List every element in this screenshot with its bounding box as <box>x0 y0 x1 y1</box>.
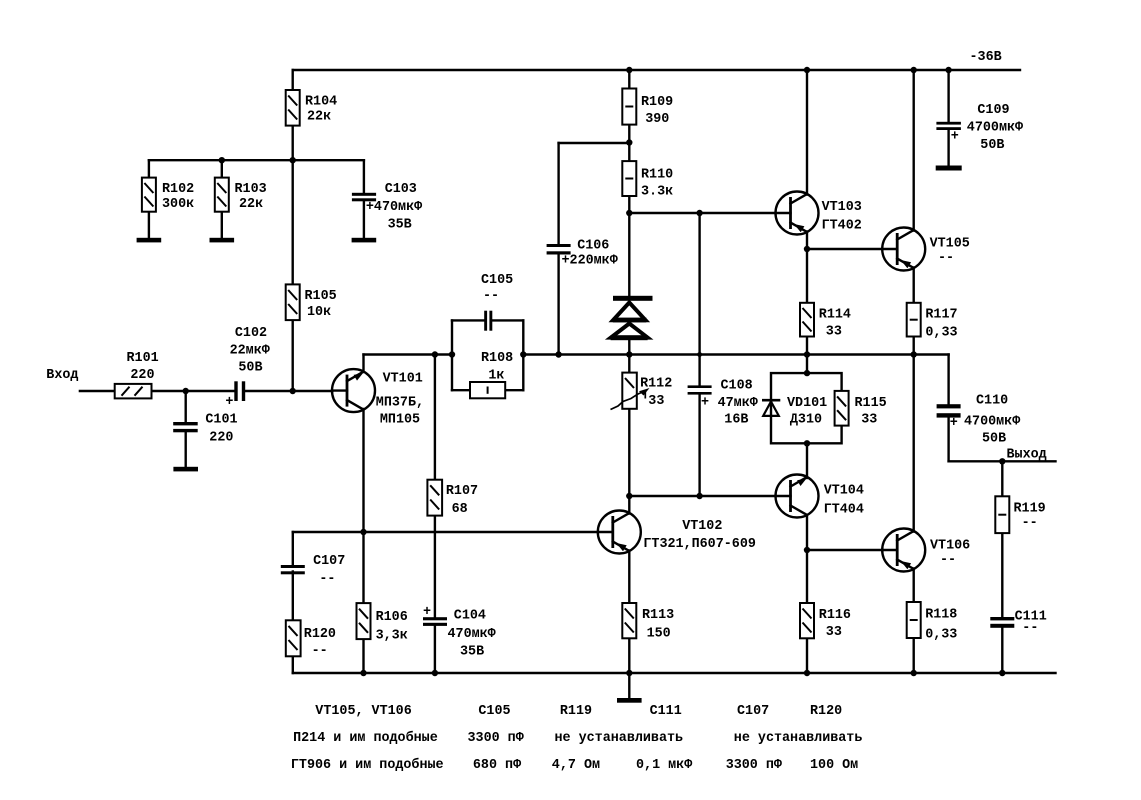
wire R104 column top <box>292 70 294 90</box>
node mid wire R117 <box>911 351 917 357</box>
svg-text:C110: C110 <box>976 394 1008 409</box>
ground under R102 <box>137 238 162 243</box>
svg-text:ГТ321,П607-609: ГТ321,П607-609 <box>643 537 756 552</box>
svg-text:C108: C108 <box>721 379 753 394</box>
ground under R103 <box>210 238 235 243</box>
node VT102 collector <box>626 493 632 499</box>
wire R106 top lead <box>362 532 364 603</box>
wire C110 column from mid wire <box>947 355 949 405</box>
node mid wire C108 crossing <box>697 352 702 357</box>
node output R119 <box>999 458 1005 464</box>
svg-text:П214 и им подобные: П214 и им подобные <box>293 730 438 746</box>
svg-text:C101: C101 <box>205 413 237 428</box>
svg-text:35В: 35В <box>388 218 412 233</box>
wire C110 bottom to output wire <box>947 418 949 461</box>
svg-text:C103: C103 <box>385 182 417 197</box>
node C108 top tap <box>696 210 702 216</box>
svg-text:R113: R113 <box>642 608 674 623</box>
svg-text:1к: 1к <box>488 369 504 384</box>
node block top <box>804 370 810 376</box>
wire block bottom to VT104 emitter <box>806 443 808 478</box>
wire C102 to VT101 base <box>245 390 332 392</box>
capacitor C108 <box>688 385 712 394</box>
ground under C101 <box>173 467 198 472</box>
wire R108 branch left <box>452 389 470 391</box>
node rail-VT103 <box>804 67 810 73</box>
wire R120 bottom to ground rail <box>292 656 294 673</box>
resistor R102 <box>142 178 156 212</box>
svg-text:R109: R109 <box>641 95 673 110</box>
node rail-C109 <box>945 67 951 73</box>
svg-text:C107: C107 <box>313 554 345 569</box>
capacitor C103 <box>352 193 376 202</box>
wire R119 top lead <box>1001 461 1003 496</box>
wire feedback row C107 to VT102 base <box>293 531 598 533</box>
wire R116 top lead <box>806 550 808 603</box>
wire VT104 collector node to VT106 base <box>807 549 883 551</box>
svg-text:C109: C109 <box>977 103 1009 118</box>
svg-text:R112: R112 <box>640 377 672 392</box>
svg-text:50В: 50В <box>980 138 1004 153</box>
svg-text:22мкФ: 22мкФ <box>230 344 270 359</box>
wire VT103 collector to rail <box>806 70 808 195</box>
wire C106 tap to R109/R110 junction <box>559 142 630 144</box>
resistor R114 <box>800 303 814 337</box>
wire R113 bottom to ground rail <box>628 638 630 673</box>
wire R104 bottom to bias node row <box>292 126 294 161</box>
svg-text:150: 150 <box>647 627 671 642</box>
resistor R106 <box>357 603 371 639</box>
wire C109 bottom to ground <box>947 130 949 166</box>
transistor VT102 (PNP) <box>598 511 641 554</box>
svg-text:ГТ906 и им подобные: ГТ906 и им подобные <box>291 757 444 773</box>
capacitor C107 <box>281 565 305 574</box>
ground under C103 <box>352 238 377 243</box>
resistor R113 <box>622 603 636 638</box>
wire R109 top lead <box>628 70 630 89</box>
svg-text:+: + <box>951 130 959 145</box>
wire R101 to C101 node <box>152 390 235 392</box>
wire R108 block to C106/diode node <box>523 353 948 355</box>
wire C101 column <box>184 391 186 422</box>
resistor R120 <box>286 620 301 656</box>
svg-text:VT105, VT106: VT105, VT106 <box>315 704 411 719</box>
wire R109 bottom to R110 top <box>628 125 630 162</box>
wire mid wire down to VT106 collector <box>913 355 915 532</box>
svg-text:R107: R107 <box>446 484 478 499</box>
svg-text:220: 220 <box>209 431 233 446</box>
svg-text:R106: R106 <box>376 610 408 625</box>
wire top supply rail -36V <box>293 69 1020 71</box>
wire C104 bottom to ground rail <box>434 626 436 673</box>
diode VD101 <box>762 400 780 416</box>
wire C105/R108 right bracket <box>522 320 524 390</box>
svg-text:10к: 10к <box>307 305 331 320</box>
svg-text:VT102: VT102 <box>682 519 722 534</box>
wire VD101 block frame <box>771 373 842 443</box>
wire R112 top lead <box>628 355 630 373</box>
wire VT104 collector down <box>806 515 808 550</box>
node VT103 emitter <box>804 246 810 252</box>
svg-text:+: + <box>701 396 709 411</box>
capacitor C101 <box>173 422 198 432</box>
svg-text:470мкФ: 470мкФ <box>448 627 496 642</box>
svg-text:R110: R110 <box>641 168 673 183</box>
node mid wire R114 <box>804 351 810 357</box>
wire R116 bottom to ground rail <box>806 638 808 673</box>
wire VT106 emitter to R118 <box>913 569 915 603</box>
wire VT103 emitter to VT105 base <box>807 248 882 250</box>
wire R112 bottom to VT102 collector node <box>628 409 630 496</box>
node ground rail R113 <box>626 670 632 676</box>
svg-text:VT101: VT101 <box>383 372 423 387</box>
wire C106 column upper <box>557 143 559 244</box>
node mid wire block right <box>520 351 526 357</box>
svg-text:0,1 мкФ: 0,1 мкФ <box>636 758 692 773</box>
resistor R112 (adjustable) <box>611 373 650 410</box>
svg-text:R117: R117 <box>925 308 957 323</box>
wire R108 branch right <box>505 389 523 391</box>
resistor R107 <box>427 480 442 516</box>
wire VT103 emitter down <box>806 232 808 250</box>
svg-text:VT105: VT105 <box>930 237 970 252</box>
transistor VT104 (NPN, emitter up) <box>776 475 819 518</box>
capacitor C105 <box>484 311 492 331</box>
svg-text:--: -- <box>1022 621 1038 636</box>
node ground rail R106 <box>360 670 366 676</box>
wire VT101 collector down <box>362 409 364 532</box>
svg-text:3.3к: 3.3к <box>641 185 673 200</box>
svg-text:--: -- <box>319 572 335 587</box>
resistor R117 <box>907 303 921 337</box>
wire input lead from Вход <box>80 390 115 392</box>
wire C101 bottom to ground <box>184 433 186 468</box>
svg-text:Выход: Выход <box>1007 448 1047 463</box>
svg-text:R116: R116 <box>819 608 851 623</box>
node ground rail R118 <box>911 670 917 676</box>
svg-text:R105: R105 <box>305 289 337 304</box>
resistor R105 <box>286 284 300 320</box>
svg-text:не устанавливать: не устанавливать <box>555 731 684 746</box>
wire R106 bottom to ground rail <box>362 639 364 673</box>
resistor R116 <box>800 603 814 638</box>
svg-text:R119: R119 <box>1014 502 1046 517</box>
resistor R110 <box>622 161 636 196</box>
svg-text:Д310: Д310 <box>790 413 822 428</box>
svg-text:R120: R120 <box>810 704 842 719</box>
wire C108 column upper <box>698 213 700 386</box>
node bias row R103 <box>219 157 225 163</box>
svg-text:390: 390 <box>645 112 669 127</box>
svg-text:+220мкФ: +220мкФ <box>562 254 618 269</box>
wire VT102 emitter to R113 <box>628 551 630 604</box>
wire C105 branch right <box>492 319 523 321</box>
capacitor C104 <box>423 617 447 626</box>
capacitor C106 <box>547 244 571 255</box>
svg-text:+470мкФ: +470мкФ <box>366 200 422 215</box>
svg-text:+: + <box>423 605 431 620</box>
resistor R101 <box>115 384 152 399</box>
svg-text:R108: R108 <box>481 351 513 366</box>
wire VT105 emitter to R117 <box>913 268 915 303</box>
svg-text:4700мкФ: 4700мкФ <box>967 121 1023 136</box>
wire ground stem of bottom rail <box>628 673 630 698</box>
svg-text:22к: 22к <box>307 110 331 125</box>
wire VT101 emitter up <box>362 355 364 373</box>
zener stack (double diode) <box>611 296 653 340</box>
wire VT105 collector to rail <box>913 70 915 231</box>
wire bias node row (R102/R103/C103) <box>149 159 364 161</box>
svg-text:300к: 300к <box>162 197 194 212</box>
capacitor C110 <box>937 404 961 417</box>
wire VT102 collector up <box>628 496 630 514</box>
node rail-VT105 <box>911 67 917 73</box>
wire R118 bottom to ground rail <box>913 638 915 673</box>
wire C103 bottom to ground <box>363 201 365 238</box>
svg-text:33: 33 <box>826 325 842 340</box>
wire VT101 emitter node to R108 block <box>364 353 453 355</box>
wire bottom ground rail <box>293 672 1056 674</box>
capacitor C111 <box>990 617 1014 628</box>
svg-text:--: -- <box>940 553 956 568</box>
node input C101 <box>183 388 189 394</box>
transistor VT106 (PNP) <box>882 529 925 572</box>
transistor VT105 (PNP) <box>882 228 925 271</box>
svg-text:0,33: 0,33 <box>925 326 957 341</box>
wire R107 top lead <box>434 355 436 480</box>
node input R105 <box>290 388 296 394</box>
svg-text:68: 68 <box>452 502 468 517</box>
svg-text:R120: R120 <box>304 627 336 642</box>
svg-text:680 пФ: 680 пФ <box>473 758 521 773</box>
resistor R119 <box>995 496 1009 533</box>
svg-text:35В: 35В <box>460 645 484 660</box>
resistor R109 <box>622 89 636 125</box>
svg-text:33: 33 <box>826 625 842 640</box>
wire R117 bottom to mid wire <box>913 337 915 355</box>
wire C108 column lower <box>698 394 700 496</box>
transistor VT101 (NPN, emitter up) <box>332 369 375 412</box>
svg-text:R102: R102 <box>162 182 194 197</box>
svg-text:3,3к: 3,3к <box>376 629 408 644</box>
node VT104 collector <box>804 547 810 553</box>
node mid wire block left <box>449 351 455 357</box>
svg-text:--: -- <box>938 251 954 266</box>
svg-text:220: 220 <box>130 368 154 383</box>
svg-text:+: + <box>225 395 233 410</box>
svg-text:C102: C102 <box>235 326 267 341</box>
svg-text:C107: C107 <box>737 704 769 719</box>
svg-text:VT106: VT106 <box>930 539 970 554</box>
wire C105 branch left <box>452 319 484 321</box>
wire R107 bottom through crossing to C104 <box>434 516 436 618</box>
wire R105 column <box>292 160 294 284</box>
node ground rail C104 <box>432 670 438 676</box>
ground of bottom rail <box>617 698 642 703</box>
svg-text:C104: C104 <box>454 609 486 624</box>
wire R105 bottom to input node <box>292 320 294 391</box>
svg-text:ГТ402: ГТ402 <box>822 219 862 234</box>
resistor R103 <box>215 178 229 212</box>
svg-text:-36В: -36В <box>970 50 1002 65</box>
svg-text:VT103: VT103 <box>822 200 862 215</box>
wire C109 column from rail <box>947 70 949 122</box>
resistor R115 <box>835 391 849 426</box>
resistor R118 <box>907 602 921 638</box>
wire C106 column lower <box>557 255 559 355</box>
svg-text:22к: 22к <box>239 197 263 212</box>
wire C111 bottom to ground rail <box>1001 628 1003 673</box>
node mid wire C106 <box>555 351 561 357</box>
svg-text:4,7 Ом: 4,7 Ом <box>552 758 600 773</box>
svg-text:4700мкФ: 4700мкФ <box>964 415 1020 430</box>
svg-text:33: 33 <box>648 394 664 409</box>
svg-text:C105: C105 <box>481 273 513 288</box>
svg-text:33: 33 <box>861 413 877 428</box>
svg-text:ГТ404: ГТ404 <box>824 503 864 518</box>
svg-text:C105: C105 <box>478 704 510 719</box>
svg-text:не устанавливать: не устанавливать <box>734 731 863 746</box>
svg-text:R103: R103 <box>235 182 267 197</box>
wire C107 bottom to R120 top <box>292 572 294 621</box>
capacitor C102 <box>234 381 245 401</box>
wire R102 bottom to ground <box>148 212 150 238</box>
node C108 bottom <box>696 493 702 499</box>
svg-text:C111: C111 <box>650 704 682 719</box>
transistor VT103 (PNP) <box>776 192 819 235</box>
wire R103 bottom to ground <box>221 212 223 238</box>
wire C103 top lead <box>363 160 365 193</box>
node ground rail R116 <box>804 670 810 676</box>
node block bottom <box>804 440 810 446</box>
wire diode column top <box>628 213 630 296</box>
svg-text:МП37Б,: МП37Б, <box>376 396 424 411</box>
wire diode bottom to mid node <box>628 340 630 355</box>
wire R119 bottom to C111 <box>1001 533 1003 617</box>
ground under C109 <box>936 166 962 171</box>
svg-text:0,33: 0,33 <box>925 628 957 643</box>
svg-text:VT104: VT104 <box>824 484 864 499</box>
wire VT103 base feed <box>629 212 775 214</box>
wire R110 bottom to VT103 base node <box>628 196 630 213</box>
svg-text:47мкФ: 47мкФ <box>718 396 758 411</box>
svg-text:Вход: Вход <box>46 368 78 383</box>
svg-text:R114: R114 <box>819 308 851 323</box>
wire VT102 collector node to VT104 base <box>629 495 775 497</box>
svg-text:VD101: VD101 <box>787 396 827 411</box>
svg-text:--: -- <box>312 644 328 659</box>
wire R114 bottom to mid wire <box>806 337 808 355</box>
wire mid wire to VD101 block top <box>806 355 808 374</box>
wire R102 top lead <box>148 160 150 177</box>
wire C107 column <box>292 532 294 565</box>
wire R114 top lead <box>806 249 808 303</box>
node ground rail C111 <box>999 670 1005 676</box>
svg-text:R115: R115 <box>855 396 887 411</box>
wire output line Выход <box>949 460 1056 462</box>
resistor R104 <box>286 90 300 126</box>
svg-text:C106: C106 <box>577 239 609 254</box>
svg-text:R118: R118 <box>925 608 957 623</box>
node R109-R110 junction <box>626 139 632 145</box>
svg-text:16В: 16В <box>724 413 748 428</box>
svg-text:50В: 50В <box>238 361 262 376</box>
svg-text:R104: R104 <box>305 95 337 110</box>
svg-text:--: -- <box>483 289 499 304</box>
node bias row R104 <box>290 157 296 163</box>
node mid wire R107 <box>432 351 438 357</box>
svg-text:50В: 50В <box>982 432 1006 447</box>
svg-text:3300 пФ: 3300 пФ <box>468 731 524 746</box>
node R110-VT103 base <box>626 210 632 216</box>
node VT101 collector feedback <box>360 529 366 535</box>
svg-text:100 Ом: 100 Ом <box>810 758 858 773</box>
svg-text:3300 пФ: 3300 пФ <box>726 758 782 773</box>
svg-text:--: -- <box>1022 516 1038 531</box>
wire R103 top lead <box>221 160 223 177</box>
capacitor C109 <box>936 122 961 130</box>
svg-text:R119: R119 <box>560 704 592 719</box>
svg-text:+: + <box>950 416 958 431</box>
resistor R108 <box>470 382 505 398</box>
svg-text:МП105: МП105 <box>380 413 420 428</box>
node mid wire diode <box>626 351 632 357</box>
svg-text:R101: R101 <box>127 351 159 366</box>
node rail-R109 <box>626 67 632 73</box>
wire C105/R108 left bracket <box>451 320 453 390</box>
